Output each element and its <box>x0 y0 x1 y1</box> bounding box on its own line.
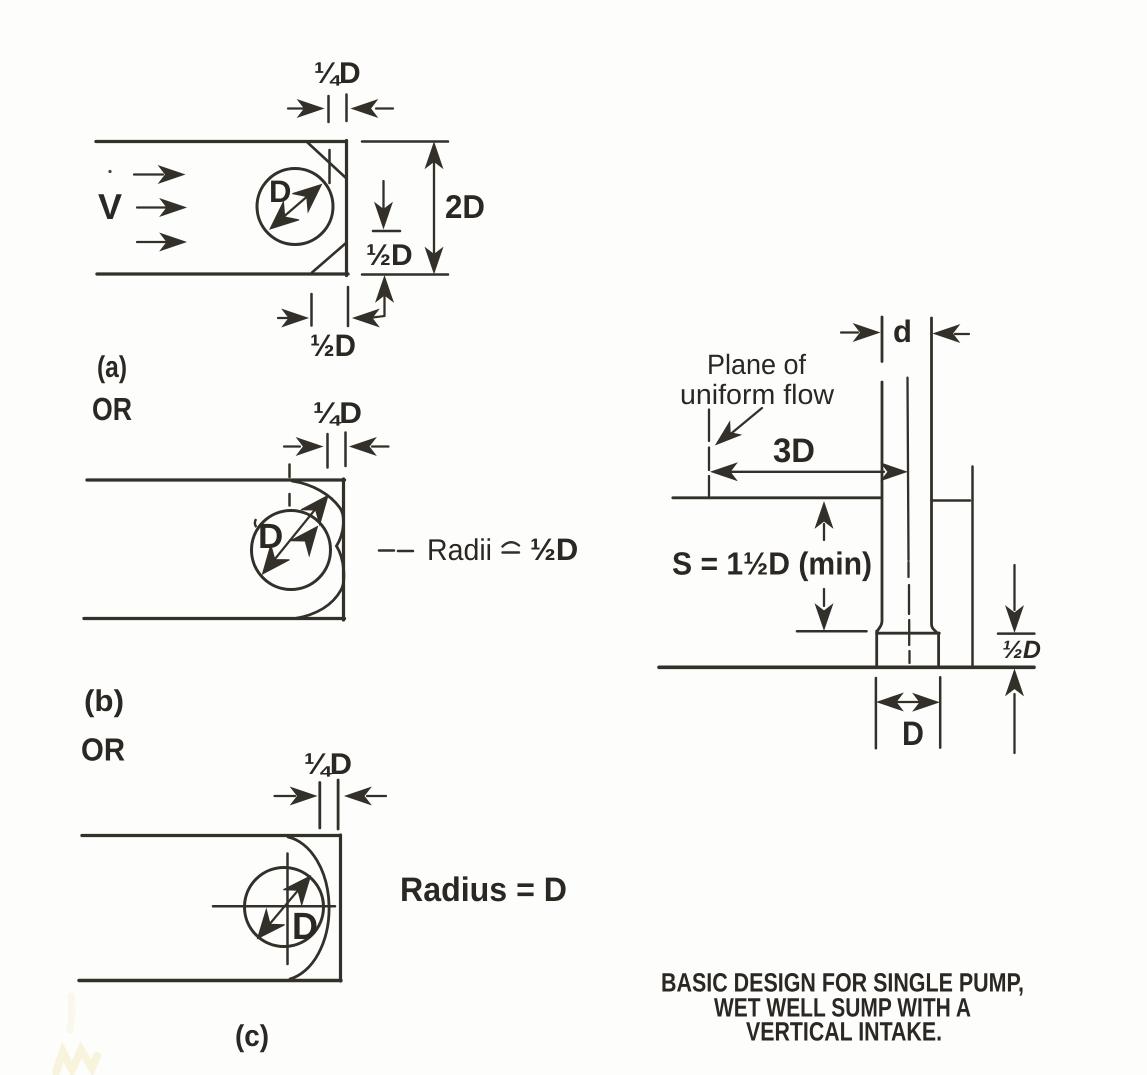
svg-text:¼D: ¼D <box>313 397 362 430</box>
sump (b) end wall <box>342 479 345 620</box>
half-D mid dimension (a): down arrow and tick <box>373 181 400 315</box>
svg-text:(a): (a) <box>97 351 127 384</box>
sump (b) upper fillet radius <box>292 481 343 546</box>
svg-text:uniform flow: uniform flow <box>680 379 835 410</box>
dashed centerline (b) <box>288 465 291 506</box>
svg-text:(b): (b) <box>84 685 124 718</box>
intake pipe left wall <box>877 317 882 631</box>
sump (c) end wall <box>339 835 342 981</box>
pipe centerline <box>908 378 910 663</box>
svg-text:Plane of: Plane of <box>707 349 806 380</box>
diameter arrows (c) <box>248 868 319 946</box>
vertical centerline (c) <box>286 854 289 965</box>
svg-text:Radius = D: Radius = D <box>400 871 567 909</box>
sump (a) top wall right extension <box>362 140 448 143</box>
sump (b) lower fillet radius <box>295 546 344 619</box>
svg-text:½D: ½D <box>530 532 578 567</box>
quarter-D dimension (c) <box>275 780 387 829</box>
leader arrow to plane of uniform flow <box>711 408 762 451</box>
bell right side <box>937 633 940 666</box>
dashed plane line <box>708 410 710 497</box>
svg-text:3D: 3D <box>773 432 815 470</box>
svg-text:D: D <box>269 174 291 209</box>
svg-text:OR: OR <box>92 391 132 427</box>
pump circle (b) <box>252 511 331 590</box>
sump (c) bottom wall <box>79 979 341 982</box>
half-D bottom dimension (a): extension lines and arrows <box>278 287 385 327</box>
svg-text:V: V <box>98 186 122 227</box>
3D dimension <box>712 463 907 480</box>
quarter-D dimension (a): ticks and arrows <box>288 95 393 123</box>
svg-text:D: D <box>258 517 283 556</box>
half-D right dimension <box>998 565 1034 753</box>
sump (a) bottom wall right extension <box>362 273 448 276</box>
flow arrow 1 <box>134 166 184 183</box>
speck near flow arrow <box>108 170 111 173</box>
svg-text:¼D: ¼D <box>314 57 361 90</box>
S dimension arrows <box>797 503 867 632</box>
D dimension below bell <box>876 677 940 748</box>
faint highlighter mark bottom left <box>56 996 97 1072</box>
svg-text:D: D <box>292 906 318 948</box>
sump (b) top wall <box>87 478 345 481</box>
svg-text:D: D <box>902 715 924 753</box>
svg-text:Radii: Radii <box>427 534 492 567</box>
sump (a) bottom chamfer <box>312 243 346 273</box>
svg-text:(c): (c) <box>235 1020 269 1053</box>
2D dimension line (a) <box>426 143 443 273</box>
quarter-D dimension (b) <box>284 433 389 468</box>
svg-text:OR: OR <box>81 732 125 768</box>
sump right wall <box>971 467 974 668</box>
sump (a) top chamfer <box>307 142 346 178</box>
sump (a) end wall <box>345 141 348 276</box>
sump (b) bottom wall <box>84 617 345 620</box>
d dimension arrows <box>841 324 969 342</box>
svg-text:d: d <box>893 314 912 349</box>
sump (a) bottom wall <box>97 272 348 275</box>
svg-text:½D: ½D <box>1002 636 1041 664</box>
quarter-D extension tick crossing chamfer (a) <box>328 150 331 183</box>
svg-text:S = 1½D (min): S = 1½D (min) <box>672 546 872 582</box>
intake pipe right wall <box>932 318 938 633</box>
horizontal centerline (c) <box>213 905 335 908</box>
svg-text:2D: 2D <box>445 188 485 225</box>
water surface right of pipe <box>932 499 970 502</box>
apostrophe mark near D (b) <box>255 519 257 527</box>
diameter arrow (a) <box>262 175 329 238</box>
leader dashes for Radii note <box>379 549 413 552</box>
approx-equal symbol <box>503 542 520 552</box>
radius-D arc (c) <box>288 837 329 979</box>
svg-text:½D: ½D <box>310 328 356 363</box>
sump floor <box>659 665 1034 669</box>
pump circle (a) <box>257 169 333 245</box>
svg-text:VERTICAL INTAKE.: VERTICAL INTAKE. <box>746 1017 942 1047</box>
svg-text:½D: ½D <box>366 239 413 272</box>
sump (c) top wall <box>82 834 340 837</box>
pump circle (c) <box>245 868 324 947</box>
flow arrow 3 <box>137 234 186 251</box>
water surface line <box>673 496 880 499</box>
sump (a) top wall <box>96 140 346 143</box>
svg-text:¼D: ¼D <box>304 748 352 781</box>
diameter arrows (b) <box>253 488 337 582</box>
flow arrow 2 <box>137 199 186 216</box>
bell rim line <box>877 632 940 635</box>
bell left side <box>875 631 878 667</box>
